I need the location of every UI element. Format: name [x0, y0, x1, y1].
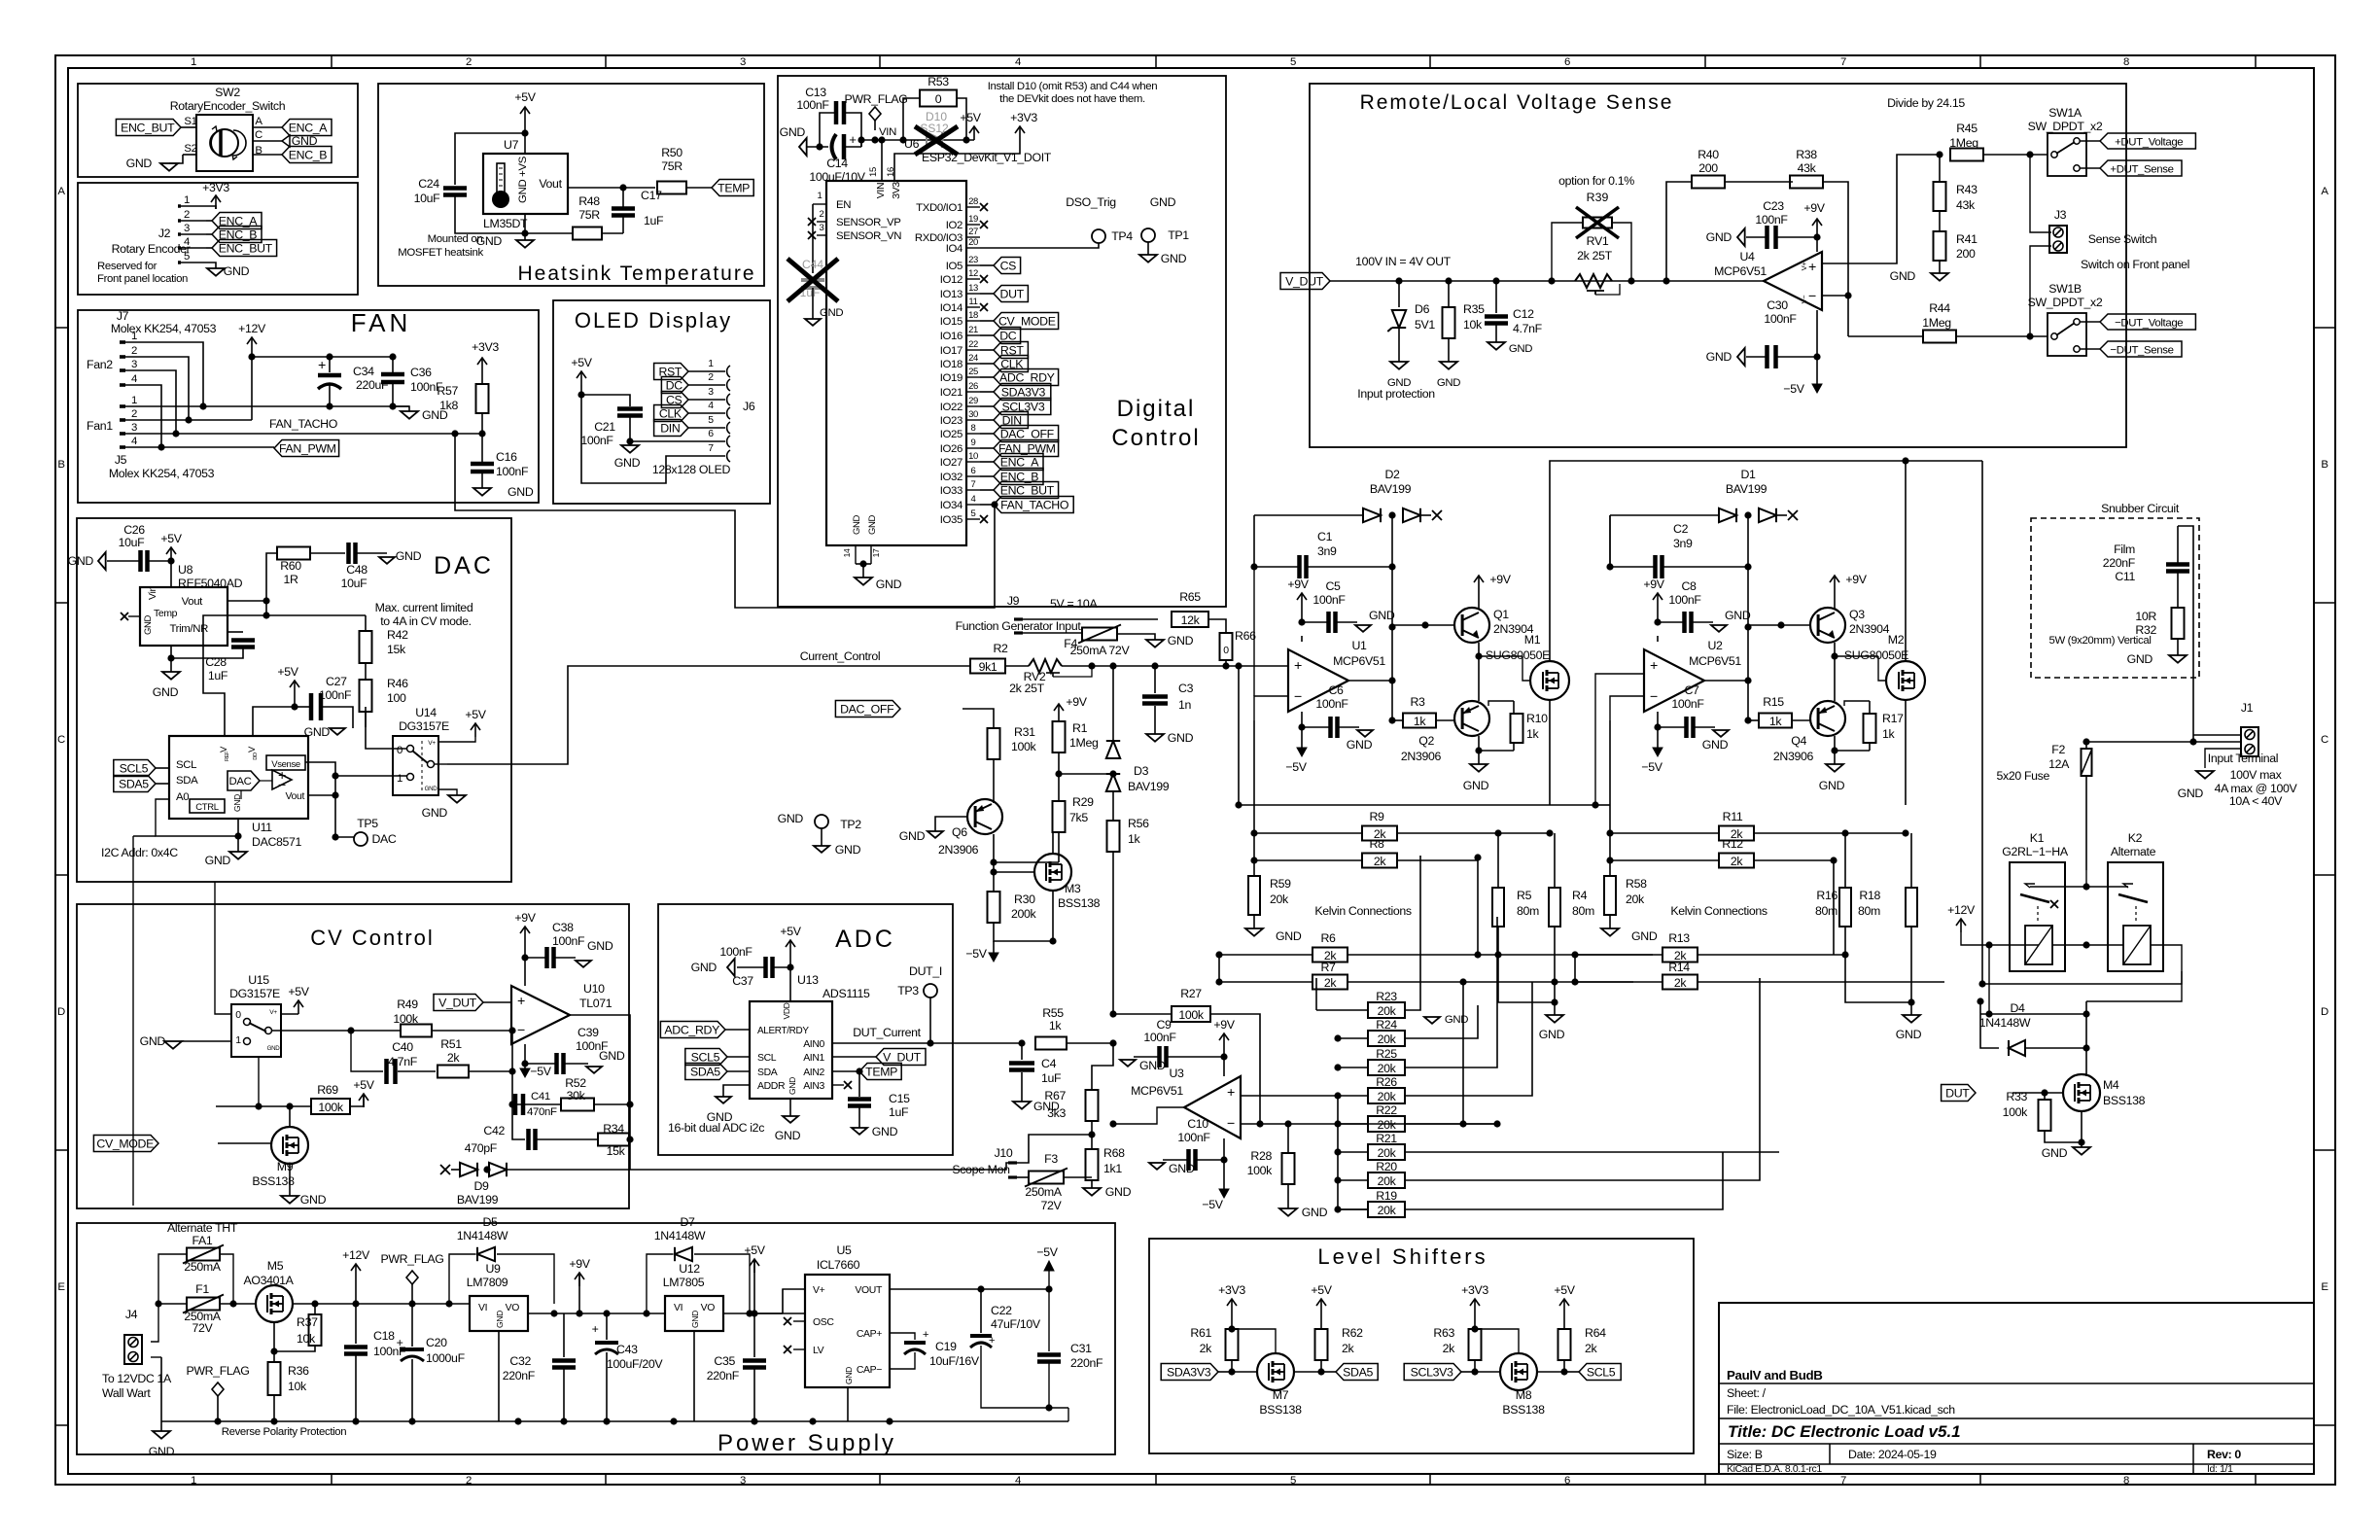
power -5V U4	[1816, 310, 1818, 379]
power -5V U10	[524, 1064, 526, 1073]
power +12V fan	[251, 337, 253, 351]
svg-text:C21: C21	[594, 420, 615, 434]
svg-text:R1: R1	[1072, 721, 1088, 735]
J7 pin 4	[120, 383, 125, 387]
svg-text:TP2: TP2	[840, 818, 861, 831]
svg-text:GND: GND	[1302, 1206, 1328, 1219]
svg-text:20k: 20k	[1378, 1118, 1397, 1132]
svg-text:16: 16	[886, 167, 896, 177]
svg-text:R51: R51	[440, 1037, 462, 1051]
wire vdut main	[1330, 280, 1764, 282]
ladder right wires	[1405, 856, 1420, 1010]
svg-text:R29: R29	[1072, 795, 1094, 809]
svg-text:R23: R23	[1376, 990, 1397, 1003]
svg-text:9: 9	[971, 437, 976, 448]
top bus to snubber	[1908, 460, 1982, 462]
svg-text:Divide by 24.15: Divide by 24.15	[1887, 96, 1965, 110]
svg-text:GND: GND	[1168, 634, 1194, 647]
svg-text:E: E	[57, 1281, 65, 1293]
svg-text:OLED Display: OLED Display	[575, 308, 732, 332]
power +5V adc	[789, 940, 791, 954]
svg-text:2k: 2k	[1731, 855, 1744, 868]
svg-text:7: 7	[708, 443, 714, 454]
svg-text:R27: R27	[1180, 987, 1202, 1000]
svg-text:SCL5: SCL5	[691, 1051, 720, 1065]
svg-text:U6: U6	[904, 137, 920, 151]
svg-text:IO17: IO17	[940, 345, 962, 357]
label ENC_B pin3	[206, 233, 212, 235]
svg-text:Mounted on: Mounted on	[428, 233, 483, 245]
svg-text:D: D	[2321, 1006, 2328, 1018]
svg-text:File: ElectronicLoad_DC_10A_V5: File: ElectronicLoad_DC_10A_V51.kicad_sc…	[1727, 1403, 1955, 1417]
svg-text:11: 11	[968, 297, 977, 307]
gnd C13	[799, 138, 807, 156]
svg-text:C: C	[2321, 734, 2328, 746]
svg-text:U7: U7	[504, 138, 519, 152]
main vin wire	[861, 140, 974, 147]
svg-text:R40: R40	[1697, 148, 1719, 161]
misc gnd ladder	[1424, 1017, 1440, 1024]
relay common wires	[2030, 870, 2086, 887]
svg-text:IO25: IO25	[940, 429, 962, 440]
svg-text:14: 14	[842, 548, 852, 557]
svg-text:GND: GND	[690, 1311, 700, 1328]
svg-text:7: 7	[1840, 1475, 1846, 1487]
svg-text:100V max: 100V max	[2230, 768, 2283, 782]
svg-text:GND: GND	[1105, 1185, 1132, 1199]
svg-text:R37: R37	[297, 1315, 318, 1329]
svg-text:ENC_BUT: ENC_BUT	[1000, 484, 1055, 498]
svg-text:100k: 100k	[1247, 1164, 1274, 1177]
svg-text:GND: GND	[205, 854, 231, 867]
U11 A0 wire gnd	[156, 799, 238, 836]
fuse wires	[151, 1304, 187, 1342]
cap C44 crossed	[812, 204, 814, 273]
svg-text:GND +VS: GND +VS	[517, 156, 529, 203]
svg-text:DAC: DAC	[434, 552, 494, 579]
svg-text:SDA5: SDA5	[119, 778, 149, 791]
svg-text:+12V: +12V	[342, 1248, 370, 1262]
gnd R59	[1245, 928, 1263, 936]
svg-text:R20: R20	[1376, 1160, 1397, 1173]
svg-text:Max. current limited: Max. current limited	[375, 601, 473, 614]
svg-text:OSC: OSC	[813, 1317, 834, 1328]
power +3V3 R57	[481, 358, 483, 371]
svg-text:+5V: +5V	[571, 356, 592, 369]
svg-text:220nF: 220nF	[707, 1369, 740, 1382]
gnd C8	[1711, 625, 1727, 632]
svg-text:J4: J4	[125, 1308, 138, 1321]
relay bottom wires	[1980, 945, 1989, 1014]
svg-text:D5: D5	[482, 1215, 498, 1229]
section box level shifters	[1149, 1239, 1694, 1453]
section box rotary encoder J2	[78, 183, 358, 295]
svg-text:2k 25T: 2k 25T	[1577, 249, 1612, 262]
svg-text:GND: GND	[614, 456, 641, 470]
svg-text:GND: GND	[1347, 738, 1373, 752]
svg-text:GND: GND	[267, 1045, 281, 1052]
svg-text:SCL5: SCL5	[120, 762, 149, 776]
svg-text:R56: R56	[1128, 817, 1149, 830]
wire vout to R42	[266, 601, 366, 615]
svg-text:SW2: SW2	[215, 86, 240, 99]
svg-text:12A: 12A	[2048, 757, 2070, 771]
svg-text:DUT_Current: DUT_Current	[853, 1026, 921, 1039]
svg-text:3n9: 3n9	[1673, 537, 1693, 550]
U11 CTRL box	[190, 799, 225, 813]
svg-text:to 4A in CV mode.: to 4A in CV mode.	[380, 614, 472, 628]
svg-text:30: 30	[968, 409, 978, 420]
svg-text:+5V: +5V	[780, 925, 801, 938]
svg-text:GND: GND	[396, 549, 422, 563]
svg-text:+9V: +9V	[1489, 573, 1511, 586]
svg-text:100nF: 100nF	[1143, 1031, 1176, 1044]
svg-text:+5V: +5V	[744, 1243, 765, 1257]
U11 VSENSE box	[266, 755, 305, 770]
svg-text:M4: M4	[2103, 1078, 2119, 1092]
label +DUT_Sense	[2100, 160, 2182, 176]
svg-text:R21: R21	[1376, 1132, 1397, 1145]
gnd C37	[727, 959, 735, 976]
svg-text:Q1: Q1	[1493, 608, 1509, 621]
svg-text:1N4148W: 1N4148W	[457, 1229, 508, 1242]
svg-text:GND: GND	[872, 1125, 898, 1138]
svg-text:A0: A0	[176, 791, 189, 803]
svg-text:Film: Film	[2114, 542, 2135, 556]
svg-text:J9: J9	[1007, 594, 1020, 608]
svg-text:C27: C27	[326, 675, 347, 688]
svg-text:1R: 1R	[283, 573, 298, 586]
power +5V U7	[524, 107, 526, 121]
svg-text:2: 2	[466, 1475, 472, 1487]
svg-text:1N4148W: 1N4148W	[654, 1229, 706, 1242]
svg-text:R62: R62	[1342, 1326, 1363, 1340]
svg-text:2k: 2k	[1585, 1342, 1598, 1355]
svg-text:100nF: 100nF	[796, 98, 829, 112]
svg-text:C4: C4	[1041, 1057, 1057, 1070]
svg-text:I2C Addr: 0x4C: I2C Addr: 0x4C	[101, 846, 178, 859]
svg-text:LM7809: LM7809	[467, 1276, 508, 1289]
svg-text:R64: R64	[1585, 1326, 1606, 1340]
svg-text:2N3906: 2N3906	[938, 843, 979, 857]
ground sym	[160, 163, 178, 171]
svg-text:K1: K1	[2030, 831, 2045, 845]
svg-text:2k: 2k	[1200, 1342, 1213, 1355]
snubber circuit box	[2031, 518, 2199, 678]
svg-text:72V: 72V	[192, 1321, 214, 1335]
svg-text:U13: U13	[797, 973, 819, 987]
svg-text:3n9: 3n9	[1317, 544, 1337, 558]
svg-text:Control: Control	[1111, 425, 1200, 451]
svg-text:−: −	[1650, 689, 1658, 705]
svg-text:GND: GND	[1463, 779, 1489, 792]
svg-text:9k1: 9k1	[979, 660, 997, 674]
svg-text:Molex KK254, 47053: Molex KK254, 47053	[111, 322, 217, 335]
svg-text:C: C	[57, 734, 65, 746]
svg-text:1uF: 1uF	[644, 214, 664, 227]
svg-text:+9V: +9V	[1643, 577, 1664, 591]
svg-text:3: 3	[708, 387, 714, 398]
svg-text:J7: J7	[117, 309, 129, 323]
svg-text:Vout: Vout	[286, 791, 305, 802]
relay outer wires	[1982, 971, 2182, 984]
svg-text:ENC_B: ENC_B	[289, 149, 328, 162]
J5 pin 2	[120, 418, 125, 422]
svg-text:GND: GND	[1369, 609, 1395, 622]
svg-text:3: 3	[131, 359, 137, 370]
svg-text:4.7nF: 4.7nF	[388, 1055, 418, 1068]
svg-text:C20: C20	[426, 1336, 447, 1349]
svg-text:IO19: IO19	[940, 372, 962, 384]
svg-text:−: −	[1294, 689, 1302, 705]
svg-text:ESP32_DevKit_V1_DOIT: ESP32_DevKit_V1_DOIT	[922, 151, 1052, 164]
svg-text:+5V: +5V	[465, 708, 486, 721]
svg-text:80m: 80m	[1572, 904, 1594, 918]
svg-text:SCL: SCL	[176, 759, 196, 771]
svg-text:IO12: IO12	[940, 274, 962, 286]
svg-text:PWR_FLAG: PWR_FLAG	[844, 92, 907, 106]
svg-text:SCL: SCL	[757, 1053, 777, 1064]
J2 pin 4	[178, 246, 181, 250]
svg-text:R61: R61	[1190, 1326, 1211, 1340]
title block	[1719, 1303, 2314, 1474]
svg-text:1: 1	[397, 773, 402, 785]
svg-text:4.7nF: 4.7nF	[1513, 322, 1543, 335]
svg-text:GND: GND	[820, 307, 843, 319]
svg-text:R19: R19	[1376, 1189, 1397, 1203]
svg-text:Power Supply: Power Supply	[717, 1430, 896, 1456]
svg-text:Kelvin Connections: Kelvin Connections	[1314, 904, 1412, 918]
svg-text:M8: M8	[1516, 1388, 1532, 1402]
svg-text:R11: R11	[1723, 810, 1743, 823]
U10 output	[570, 1015, 630, 1104]
svg-text:ENC_A: ENC_A	[289, 122, 329, 135]
svg-text:F2: F2	[2051, 743, 2065, 756]
svg-text:100nF: 100nF	[1764, 312, 1797, 326]
svg-text:Q3: Q3	[1849, 608, 1865, 621]
svg-text:+: +	[397, 1336, 403, 1349]
gnd C16	[473, 488, 491, 496]
gnd F4	[1146, 640, 1164, 647]
svg-text:1k: 1k	[1882, 727, 1896, 741]
power +5V C27	[294, 681, 296, 694]
svg-text:C9: C9	[1156, 1018, 1172, 1032]
U15 in wire from dac	[215, 882, 231, 1014]
svg-text:R41: R41	[1956, 232, 1977, 246]
U5 gnd	[847, 1387, 849, 1421]
section box power supply	[77, 1223, 1115, 1454]
svg-text:U11: U11	[252, 821, 272, 834]
svg-text:128x128 OLED: 128x128 OLED	[652, 463, 731, 476]
svg-text:J5: J5	[115, 453, 127, 467]
svg-text:5x20 Fuse: 5x20 Fuse	[1997, 769, 2050, 783]
svg-text:FAN: FAN	[351, 308, 412, 337]
svg-text:ALERT/RDY: ALERT/RDY	[757, 1026, 809, 1036]
svg-text:F1: F1	[195, 1282, 209, 1296]
svg-text:IO21: IO21	[940, 387, 962, 399]
svg-text:−5V: −5V	[1783, 382, 1804, 396]
svg-text:+5V: +5V	[353, 1078, 374, 1092]
svg-text:470pF: 470pF	[465, 1141, 498, 1155]
svg-text:R10: R10	[1526, 712, 1548, 725]
svg-text:TP3: TP3	[897, 984, 919, 997]
svg-text:1Meg: 1Meg	[1922, 316, 1951, 330]
svg-text:SDA3V3: SDA3V3	[1167, 1366, 1211, 1380]
svg-text:100V IN = 4V OUT: 100V IN = 4V OUT	[1355, 255, 1451, 268]
svg-text:−DUT_Voltage: −DUT_Voltage	[2115, 317, 2183, 329]
svg-text:75R: 75R	[661, 159, 682, 173]
svg-text:10uF: 10uF	[119, 536, 146, 549]
svg-text:100k: 100k	[2003, 1105, 2029, 1119]
svg-text:J6: J6	[743, 400, 755, 413]
gnd C21	[621, 445, 639, 453]
svg-text:SENSOR_VP: SENSOR_VP	[836, 217, 900, 228]
wire gnd rail	[125, 405, 409, 407]
svg-text:C10: C10	[1187, 1117, 1208, 1131]
svg-text:R5: R5	[1517, 889, 1532, 902]
svg-text:Vout: Vout	[182, 596, 204, 608]
svg-text:6: 6	[971, 466, 976, 476]
svg-text:25: 25	[968, 367, 978, 377]
svg-text:Digital: Digital	[1117, 396, 1196, 422]
U9 out wire	[528, 1312, 630, 1314]
svg-text:43k: 43k	[1798, 161, 1817, 175]
svg-text:16-bit dual ADC i2c: 16-bit dual ADC i2c	[668, 1121, 764, 1135]
svg-text:Title: DC Electronic Load v5.1: Title: DC Electronic Load v5.1	[1728, 1422, 1961, 1441]
svg-text:Sheet: /: Sheet: /	[1727, 1386, 1767, 1400]
svg-text:Alternate: Alternate	[2111, 845, 2156, 858]
U10 wires	[511, 1029, 513, 1031]
svg-text:R42: R42	[387, 628, 408, 642]
svg-text:D: D	[57, 1006, 65, 1018]
svg-text:Input Terminal: Input Terminal	[2208, 752, 2278, 765]
svg-text:GND: GND	[1509, 343, 1532, 355]
gnd C26	[98, 552, 106, 570]
gnd R58	[1601, 928, 1619, 936]
section box DAC	[77, 518, 511, 882]
svg-text:R6: R6	[1320, 931, 1336, 945]
svg-text:C6: C6	[1328, 683, 1344, 697]
svg-text:2k: 2k	[1342, 1342, 1355, 1355]
gnd J1	[2196, 771, 2214, 779]
svg-text:V+: V+	[813, 1285, 825, 1296]
svg-text:+: +	[318, 358, 326, 373]
svg-text:1n: 1n	[1178, 698, 1192, 712]
wire A0 down to CV	[133, 835, 156, 837]
svg-text:GND: GND	[425, 786, 438, 792]
gnd C4	[1013, 1102, 1031, 1109]
gnd C30	[1737, 348, 1745, 366]
svg-text:U9: U9	[485, 1262, 501, 1276]
svg-text:GND: GND	[126, 157, 153, 170]
svg-text:MCP6V51: MCP6V51	[1131, 1084, 1183, 1098]
J2 pin 2	[178, 219, 181, 223]
svg-text:C2: C2	[1673, 522, 1689, 536]
svg-text:250mA: 250mA	[184, 1260, 221, 1274]
svg-text:20k: 20k	[1378, 1004, 1397, 1018]
svg-text:LV: LV	[813, 1346, 824, 1356]
svg-text:R66: R66	[1235, 629, 1256, 643]
svg-text:C24: C24	[418, 177, 439, 191]
gnd M9	[289, 1164, 291, 1196]
svg-text:10k: 10k	[1463, 318, 1483, 332]
gnd Q6	[935, 817, 967, 831]
svg-text:IO32: IO32	[940, 472, 962, 483]
svg-text:FA1: FA1	[192, 1234, 213, 1247]
svg-text:BSS138: BSS138	[2103, 1094, 2146, 1107]
U14 gnd	[438, 789, 457, 795]
svg-text:V+: V+	[269, 1009, 277, 1016]
svg-text:4: 4	[131, 373, 137, 385]
svg-text:1: 1	[235, 1035, 241, 1046]
svg-text:+9V: +9V	[1066, 695, 1087, 709]
svg-text:the DEVkit does not have them.: the DEVkit does not have them.	[999, 93, 1145, 105]
svg-text:Alternate THT: Alternate THT	[167, 1221, 238, 1235]
svg-text:C41: C41	[531, 1091, 550, 1102]
svg-text:R2: R2	[993, 642, 1008, 655]
svg-text:R16: R16	[1816, 889, 1837, 902]
svg-text:DG3157E: DG3157E	[399, 719, 449, 733]
gnd C39	[586, 1067, 602, 1073]
label ENC_BUT	[116, 120, 181, 136]
svg-text:5: 5	[971, 508, 976, 519]
svg-text:Current_Control: Current_Control	[800, 649, 881, 663]
svg-text:R24: R24	[1376, 1018, 1397, 1032]
K2 coil	[2123, 926, 2151, 964]
gnd R41	[1931, 273, 1948, 281]
svg-text:3: 3	[740, 56, 746, 68]
svg-text:IO27: IO27	[940, 457, 962, 469]
svg-text:10k: 10k	[297, 1332, 316, 1346]
svg-text:D2: D2	[1384, 468, 1400, 481]
svg-text:1k8: 1k8	[439, 399, 458, 412]
svg-text:+3V3: +3V3	[1461, 1283, 1488, 1297]
svg-text:DAC: DAC	[229, 776, 252, 787]
svg-text:GND: GND	[1706, 350, 1732, 364]
gnd ps	[153, 1431, 170, 1439]
power +9V Q1	[1478, 576, 1480, 589]
svg-text:TP4: TP4	[1111, 229, 1133, 243]
svg-text:+: +	[849, 132, 857, 147]
svg-text:R44: R44	[1929, 301, 1950, 315]
svg-text:RV1: RV1	[1587, 234, 1609, 248]
svg-text:7: 7	[1840, 56, 1846, 68]
svg-text:C5: C5	[1325, 579, 1341, 593]
svg-text:GND: GND	[143, 614, 154, 635]
svg-text:AIN2: AIN2	[803, 1067, 824, 1078]
svg-text:+9V: +9V	[1803, 201, 1825, 215]
svg-text:VO: VO	[506, 1303, 520, 1313]
svg-text:C19: C19	[935, 1340, 957, 1353]
svg-text:GND: GND	[1725, 609, 1751, 622]
label ENC_A pin2	[206, 220, 212, 222]
svg-text:−5V: −5V	[1641, 760, 1662, 774]
svg-text:R49: R49	[397, 997, 418, 1011]
svg-text:U1: U1	[1351, 639, 1367, 652]
svg-text:SDA: SDA	[176, 775, 198, 787]
svg-text:100nF: 100nF	[1315, 697, 1348, 711]
U11 vsense vout wires	[305, 762, 354, 837]
svg-text:4: 4	[1015, 1475, 1021, 1487]
svg-text:20k: 20k	[1378, 1090, 1397, 1103]
svg-text:A: A	[255, 116, 262, 127]
M1 drain wire	[1550, 461, 1908, 661]
svg-text:R46: R46	[387, 677, 408, 690]
svg-text:1: 1	[708, 359, 714, 369]
svg-text:SW_DPDT_x2: SW_DPDT_x2	[2028, 296, 2103, 309]
svg-text:BSS138: BSS138	[1259, 1403, 1302, 1417]
svg-text:ENC_BUT: ENC_BUT	[219, 242, 273, 256]
